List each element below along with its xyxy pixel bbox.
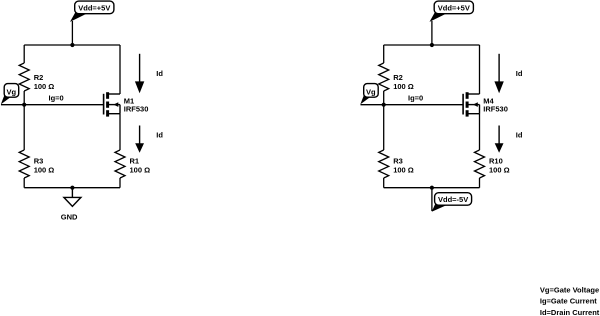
wire Vg to gate	[1, 104, 104, 106]
MOSFET M4 body lead with arrow	[467, 102, 479, 113]
svg-text:Ig=0: Ig=0	[49, 93, 64, 102]
wire R2 to gate junction	[23, 91, 25, 105]
wire drain to top rail	[479, 45, 481, 94]
wire top rail to R2	[23, 45, 25, 63]
MOSFET M1 gate bar	[103, 94, 105, 115]
wire bottom feed to Vdd=-5V flag	[431, 188, 433, 211]
current arrow Id (source, lower)	[135, 126, 144, 153]
svg-text:GND: GND	[61, 213, 78, 222]
current arrow Id (drain, upper)	[135, 54, 144, 93]
wire gate junction to R3	[23, 105, 25, 150]
MOSFET M4 drain lead	[467, 93, 479, 95]
MOSFET M4 source lead	[467, 113, 479, 115]
wire Vdd flag to top rail	[431, 21, 433, 45]
junction gate wire / left branch	[382, 103, 386, 107]
svg-text:Id: Id	[156, 131, 163, 140]
svg-text:100 Ω: 100 Ω	[393, 166, 414, 175]
wire source to R1	[119, 114, 121, 150]
svg-text:100 Ω: 100 Ω	[393, 82, 414, 91]
svg-text:IRF530: IRF530	[483, 105, 508, 114]
wire R3 to bottom rail	[383, 178, 385, 188]
svg-text:100 Ω: 100 Ω	[489, 166, 510, 175]
wire Vg to gate	[361, 104, 464, 106]
svg-text:100 Ω: 100 Ω	[130, 166, 151, 175]
svg-text:Vdd=-5V: Vdd=-5V	[438, 195, 468, 204]
wire top rail to R2	[383, 45, 385, 63]
wire R3 to bottom rail	[23, 178, 25, 188]
MOSFET M1 body lead with arrow	[108, 102, 120, 113]
svg-text:100 Ω: 100 Ω	[34, 166, 55, 175]
ground	[64, 188, 81, 207]
svg-text:Vdd=+5V: Vdd=+5V	[438, 3, 470, 12]
svg-text:Vdd=+5V: Vdd=+5V	[78, 3, 110, 12]
MOSFET M4 source channel bar	[466, 110, 469, 116]
svg-text:Vg: Vg	[366, 88, 376, 97]
voltage flag Vdd=+5V	[70, 1, 114, 22]
wire gate junction to R3	[383, 105, 385, 150]
wire R1 to bottom rail	[119, 178, 121, 188]
MOSFET M1 source lead	[108, 113, 120, 115]
junction top rail / Vdd feed	[70, 43, 74, 47]
svg-text:R10: R10	[489, 157, 503, 166]
svg-text:Ig=Gate Current: Ig=Gate Current	[540, 297, 597, 306]
MOSFET M1 drain lead	[108, 93, 120, 95]
resistor R3	[19, 150, 29, 178]
svg-text:Id: Id	[516, 131, 523, 140]
junction bottom rail feed	[430, 186, 434, 190]
svg-text:Vg: Vg	[7, 88, 17, 97]
current arrow Id (source, lower)	[495, 126, 504, 153]
wire drain to top rail	[119, 45, 121, 94]
voltage flag Vg	[1, 84, 19, 105]
wire bottom rail	[384, 187, 480, 189]
voltage flag Vdd=+5V	[430, 1, 474, 22]
svg-text:R3: R3	[34, 157, 44, 166]
junction gate wire / left branch	[22, 103, 26, 107]
junction bottom rail feed	[70, 186, 74, 190]
svg-text:R2: R2	[393, 73, 403, 82]
MOSFET M4 drain channel bar	[466, 92, 469, 99]
resistor R10	[475, 150, 485, 178]
MOSFET M1 body channel bar	[106, 102, 109, 108]
wire top rail	[384, 44, 480, 46]
current arrow Id (drain, upper)	[494, 54, 503, 93]
svg-text:Id: Id	[516, 69, 523, 78]
junction top rail / Vdd feed	[430, 43, 434, 47]
voltage flag Vdd=-5V	[432, 193, 472, 212]
svg-text:100 Ω: 100 Ω	[34, 82, 55, 91]
wire bottom rail	[24, 187, 120, 189]
svg-text:Ig=0: Ig=0	[408, 93, 423, 102]
resistor R3	[379, 150, 389, 178]
MOSFET M1 drain channel bar	[106, 92, 109, 99]
svg-text:R1: R1	[130, 157, 140, 166]
voltage flag Vg	[360, 84, 378, 105]
wire Vdd flag to top rail	[71, 21, 73, 45]
MOSFET M1 source channel bar	[106, 110, 109, 116]
svg-text:Id: Id	[156, 69, 163, 78]
svg-text:Id=Drain Current: Id=Drain Current	[540, 308, 600, 316]
wire R2 to gate junction	[383, 91, 385, 105]
svg-text:IRF530: IRF530	[124, 105, 149, 114]
svg-text:R2: R2	[34, 73, 44, 82]
resistor R2	[19, 63, 29, 91]
resistor R1	[115, 150, 125, 178]
MOSFET M4 body channel bar	[466, 102, 469, 108]
wire source to R10	[479, 114, 481, 150]
svg-text:R3: R3	[393, 157, 403, 166]
svg-text:Vg=Gate Voltage: Vg=Gate Voltage	[540, 285, 599, 294]
wire top rail	[24, 44, 120, 46]
MOSFET M4 gate bar	[462, 94, 464, 115]
resistor R2	[379, 63, 389, 91]
wire R10 to bottom rail	[479, 178, 481, 188]
